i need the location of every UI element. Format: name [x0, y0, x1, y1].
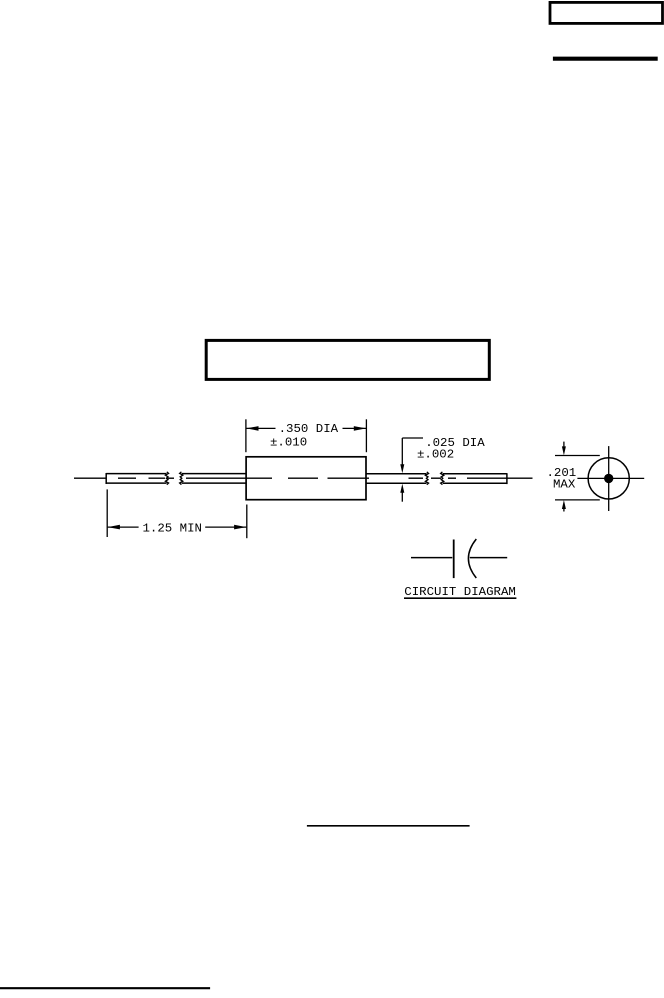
.350 DIA dimension line with arrows: [247, 427, 276, 429]
svg-text:CIRCUIT DIAGRAM: CIRCUIT DIAGRAM: [404, 585, 516, 599]
svg-text:MAX: MAX: [553, 477, 576, 491]
.201 MAX extension line bottom: [555, 499, 600, 501]
underline for CIRCUIT DIAGRAM: [404, 597, 516, 599]
svg-text:1.25 MIN: 1.25 MIN: [143, 522, 203, 536]
.025 DIA leader line: [402, 437, 423, 439]
right lead break symbol 1: [425, 472, 428, 485]
end view center lead dot: [604, 474, 613, 483]
right lead wire: [366, 473, 507, 484]
capacitor body C1 outline: [246, 457, 366, 500]
end view vertical centerline: [608, 446, 610, 511]
thick rule under title block: [553, 57, 658, 61]
circuit diagram: capacitor left plate: [453, 540, 455, 579]
.350 DIA dimension extension lines: [245, 419, 247, 452]
footnote separator line (middle): [307, 825, 470, 827]
drawing-number box (empty rectangle above figure): [206, 340, 489, 379]
.201 MAX extension line top: [555, 455, 600, 457]
end view circle: [588, 458, 629, 499]
circuit diagram: right wire: [470, 557, 507, 559]
footnote separator line (bottom left): [0, 987, 210, 989]
end view horizontal centerline: [577, 477, 644, 479]
left lead break symbol 2: [180, 472, 183, 485]
.201 MAX top arrow: [563, 442, 565, 447]
circuit diagram: capacitor curved plate: [468, 539, 476, 578]
svg-text:±.010: ±.010: [270, 435, 307, 449]
circuit diagram: left wire: [411, 557, 452, 559]
left lead break symbol 1: [165, 472, 168, 485]
1.25 MIN dimension extension lines: [106, 489, 108, 537]
left lead wire: [106, 473, 246, 484]
title block box (top right, empty): [550, 2, 663, 23]
.201 MAX bottom arrow: [563, 509, 565, 512]
1.25 MIN dimension line with arrows: [108, 526, 139, 528]
svg-text:.350 DIA: .350 DIA: [279, 422, 339, 436]
right lead break symbol 2: [441, 472, 444, 485]
centerline (main axis): [74, 477, 533, 479]
svg-text:±.002: ±.002: [417, 447, 454, 461]
